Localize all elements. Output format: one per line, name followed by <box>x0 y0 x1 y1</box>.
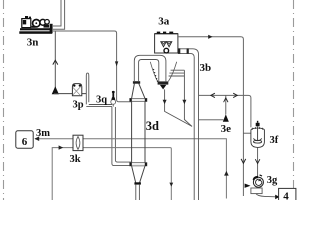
cyclone funnel under feeder <box>150 62 157 82</box>
pump 3g <box>251 188 262 194</box>
pipe: down-leg from 3q line into column bottom <box>112 107 132 166</box>
svg-text:6: 6 <box>22 136 28 148</box>
svg-text:3k: 3k <box>69 154 80 165</box>
nozzle 3e riser <box>225 95 227 114</box>
arrow down on right drop <box>241 159 246 163</box>
wire: funnel drop line to 3b pipe <box>165 89 192 126</box>
blower 3k <box>73 135 83 150</box>
wire: horizontal line to 3p <box>54 93 86 95</box>
svg-text:3n: 3n <box>27 37 39 49</box>
svg-text:3a: 3a <box>158 16 170 28</box>
wire: pump discharge into box 4 <box>256 194 276 197</box>
svg-text:3d: 3d <box>146 119 159 133</box>
trap 3p <box>72 84 81 96</box>
box 4 <box>279 188 296 204</box>
column bottom flange <box>130 163 147 166</box>
wire: feeder vent line to right drop <box>178 37 243 196</box>
wire: long return line into box 6 (y=138.7) <box>35 139 226 199</box>
wire: line from 3b pipe to nozzle 3e <box>199 119 224 121</box>
arrow right on supply line <box>59 145 64 149</box>
arrow up chevron on riser <box>53 60 58 64</box>
svg-text:3q: 3q <box>96 95 107 106</box>
arrow right on header <box>233 93 237 97</box>
wire: recycle header y=95.4 <box>199 95 251 127</box>
svg-text:4: 4 <box>283 191 289 200</box>
arrow down on drop line <box>115 61 118 66</box>
pipe: feeder outlet to 3b downcomer <box>178 49 199 200</box>
svg-text:3b: 3b <box>200 62 212 74</box>
svg-text:3m: 3m <box>36 128 50 139</box>
pipe: column bottom outlet to edge <box>136 185 140 200</box>
svg-text:3p: 3p <box>72 100 83 111</box>
arrow (solid) into pump inlet <box>245 184 251 188</box>
arrow down tick on x=171.3 <box>169 183 173 187</box>
wire: tee into tank 3f <box>243 132 251 134</box>
arrow up on vertical x=226.4 <box>224 171 229 176</box>
left dash-dot frame border <box>3 0 5 200</box>
svg-text:3g: 3g <box>267 175 278 186</box>
funnel flange <box>158 81 169 84</box>
column 3d body walls <box>132 102 145 163</box>
arrow left on header <box>211 93 215 97</box>
feeder rotary valve circle <box>164 48 169 53</box>
column apex flange <box>134 182 141 184</box>
right dash-dot frame border <box>293 0 295 200</box>
wire: pipe from top edge into compressor 3n <box>53 0 61 26</box>
wires: three bleed lines from funnel <box>169 70 185 76</box>
arrow right on vent line <box>208 35 212 39</box>
pipe: top transfer line (n-shape) from feeder to column <box>134 55 166 81</box>
feeder box 3a <box>155 34 178 53</box>
valve (solid) at riser foot <box>52 86 59 94</box>
column inlet flange <box>133 81 140 84</box>
stirred tank 3f <box>251 121 265 148</box>
nozzle 3e (solid) <box>223 114 229 122</box>
wire: tank outlet to pump <box>257 148 259 177</box>
compressor unit 3n <box>19 16 52 34</box>
arrow left into box 6 <box>34 136 39 141</box>
svg-text:3f: 3f <box>270 135 279 146</box>
wire: double line from standpipe to valve 3q foot <box>86 105 112 107</box>
wire: long supply line (y=147.6) from bottom-left riser to drop at x=171 <box>52 148 171 200</box>
column top flange <box>130 98 147 101</box>
wire: riser from 3p line up to compressor <box>54 32 56 94</box>
valve 3q (black actuator on globe) <box>111 100 116 105</box>
box 6 <box>16 131 33 148</box>
column top cone <box>132 84 145 99</box>
wire: compressor outlet line, drop at x=116.6, into column <box>53 31 132 102</box>
pipe: standpipe after 3p with rounded cap <box>86 73 89 104</box>
feeder vanes <box>161 42 166 47</box>
wire: bleed drop line to 3b pipe <box>184 70 192 126</box>
funnel outlet arrow (solid) <box>160 85 166 90</box>
column bottom cone <box>132 166 145 183</box>
svg-text:3e: 3e <box>221 123 232 135</box>
